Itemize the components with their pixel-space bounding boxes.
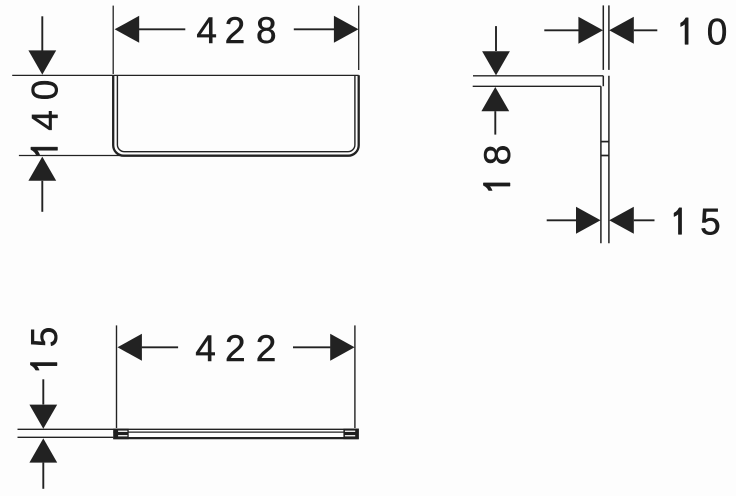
front view: bottom extension line for 140 (19, 155, 125, 157)
side view: plate left line (602, 5, 604, 70)
dim 18: label (rotated) (477, 145, 518, 191)
svg-text:2: 2 (225, 328, 246, 369)
dim 15 (side view): right stub line (634, 219, 655, 221)
dim 140: bottom stub line (41, 181, 43, 212)
bottom view: left end block (filled) (113, 429, 129, 440)
svg-text:4: 4 (196, 10, 217, 51)
dim 140: label (rotated) (25, 80, 66, 155)
bottom view: lower extension line for 15 (18, 436, 114, 438)
dim 10: left arrow (points right) (578, 17, 603, 44)
dim 18: upper extension line (473, 75, 603, 77)
svg-text:0: 0 (25, 80, 66, 101)
svg-text:4: 4 (25, 110, 66, 131)
dim 15 (bottom view): label (rotated) (24, 327, 65, 370)
bottom view: left end block white slits (118, 431, 127, 432)
svg-text:8: 8 (477, 145, 518, 166)
side view: hook slot lower rung (601, 155, 609, 157)
dim 18: lower stub line (494, 111, 496, 134)
dim 140: top stub line (41, 16, 43, 50)
dim 18: up arrow (481, 87, 509, 111)
dim 15 (bottom view): bottom stub line (42, 463, 44, 489)
dim 140: down arrow (28, 50, 56, 74)
svg-text:4: 4 (195, 328, 216, 369)
side view: lower profile right line (608, 76, 610, 244)
dim 428: label (196, 10, 276, 51)
dim 422: left extension line (116, 325, 118, 428)
dim 18: down arrow (482, 51, 510, 75)
dim 428: left extension line (112, 6, 114, 74)
side view: hook step vertical (602, 76, 604, 86)
dim 15 (bottom view): down arrow (29, 405, 57, 429)
bottom view: right end block (filled) (343, 429, 359, 440)
bottom view: bar inner line (113, 431, 358, 433)
svg-text:8: 8 (256, 10, 277, 51)
dim 15 (side view): label (674, 201, 721, 242)
dim 428: right arrow (334, 16, 359, 43)
side view: hook slot upper rung (601, 141, 609, 143)
dim 428: right extension line (358, 6, 360, 70)
dim 422: left arrow (118, 334, 142, 361)
dim 422: left stub line (142, 346, 178, 348)
svg-text:0: 0 (707, 11, 728, 52)
side view: plate right line (608, 5, 610, 70)
svg-text:2: 2 (225, 10, 246, 51)
dim 422: right stub line (293, 346, 330, 348)
dim 15 (bottom view): up arrow (29, 438, 57, 462)
front view: shelf inner wall line (117, 75, 355, 151)
dim 422: label (195, 328, 276, 369)
dim 422: right extension line (354, 325, 356, 428)
side view: lower profile left line (600, 86, 602, 243)
bottom view: bar top edge + left extension line (18, 428, 359, 430)
dim 15 (bottom view): top stub line (42, 379, 44, 404)
dim 10: right stub line (634, 29, 658, 31)
dim 10: left stub line (544, 29, 579, 31)
front view: shelf outer outline (113, 75, 359, 155)
dim 18: lower extension line (473, 85, 601, 87)
svg-text:2: 2 (256, 328, 277, 369)
svg-text:5: 5 (700, 201, 721, 242)
svg-text:5: 5 (24, 327, 65, 348)
dim 428: left arrow (115, 16, 140, 43)
dim 10: label (681, 11, 728, 52)
front view: shelf top edge + left extension line for 140 (12, 74, 359, 76)
bottom view: bar bottom edge (113, 437, 358, 439)
dim 428: left stub line (139, 28, 185, 30)
dim 15 (side view): left stub line (547, 219, 577, 221)
dim 15 (side view): left arrow (points right) (576, 207, 601, 234)
dim 18: top stub line (495, 26, 497, 51)
dim 15 (side view): right arrow (points left) (609, 207, 634, 234)
dim 10: right arrow (points left) (609, 17, 634, 44)
bottom view: right end block white slits (345, 431, 355, 432)
dim 140: up arrow (28, 157, 56, 181)
dim 422: right arrow (330, 334, 354, 361)
dim 428: right stub line (294, 28, 335, 30)
